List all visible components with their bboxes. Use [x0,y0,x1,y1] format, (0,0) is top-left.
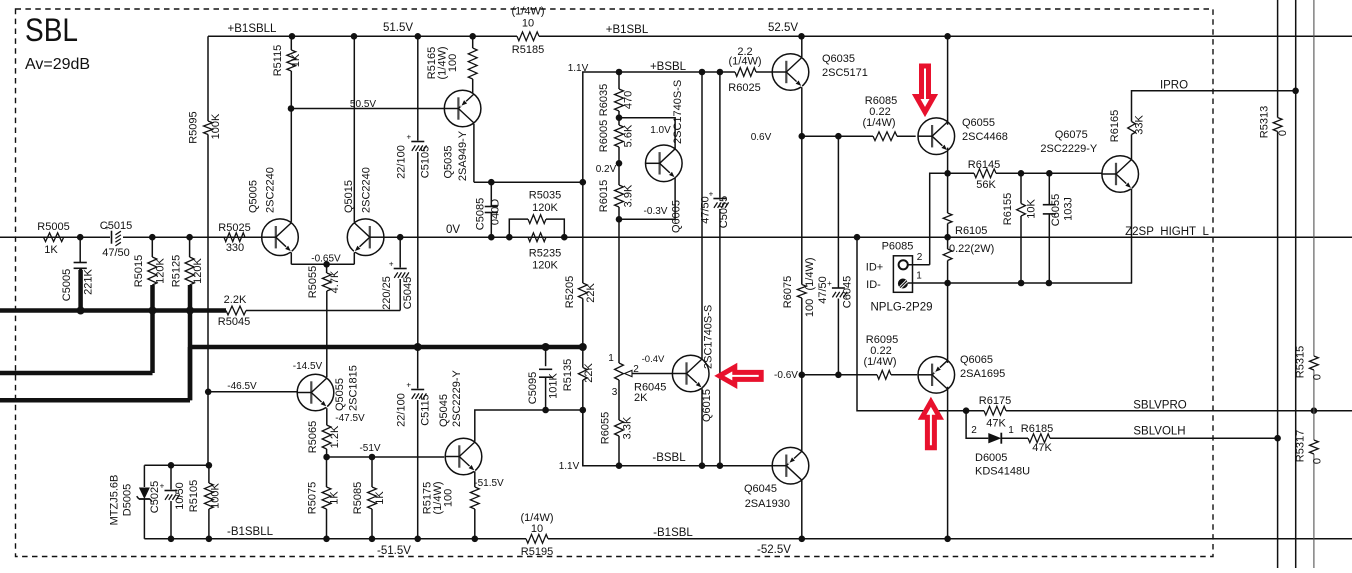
svg-text:+B1SBLL: +B1SBLL [228,23,278,35]
svg-text:33K: 33K [1134,115,1146,135]
resistor R5055 [307,266,341,298]
svg-text:R5075: R5075 [307,482,319,514]
resistor R5165 [426,36,477,93]
svg-text:C5005: C5005 [61,269,73,301]
svg-text:Q5035: Q5035 [443,145,455,178]
svg-text:2: 2 [633,364,639,375]
wire R5055 chain [326,264,328,377]
wire R5045 to C5045 [246,310,400,312]
resistor R5035 top branch [509,190,564,238]
svg-text:D5005: D5005 [122,484,134,516]
svg-text:R5125: R5125 [171,255,183,287]
thick shield line C [0,398,190,403]
svg-text:100: 100 [443,489,455,507]
resistor R5015 [133,255,167,287]
svg-text:C5095: C5095 [527,372,539,404]
node dot R6175 [963,407,970,414]
wire zener box top [144,464,209,466]
resistor R6075 [782,136,816,375]
wire -B1SBLL/-B1SBL bottom rail [144,538,1352,540]
node dot SBLVOLH end [1274,435,1281,442]
node dots R pair [506,234,568,241]
thick shield line A [0,308,226,313]
svg-text:1.1V: 1.1V [568,63,589,74]
voltage 50.5V [350,99,376,110]
svg-text:-51.5V: -51.5V [377,545,411,557]
red arrow left at Q6015 [719,367,761,385]
svg-text:Q6075: Q6075 [1055,129,1088,141]
net label +BSBL [650,61,687,73]
svg-text:D6005: D6005 [975,452,1007,464]
svg-text:1: 1 [916,271,922,282]
svg-text:10K: 10K [1026,199,1038,219]
voltage 0.2V [596,164,617,175]
svg-text:2: 2 [917,252,923,263]
transistor Q5035 PNP [443,90,481,181]
bus line 3 x=1313.9 [1313,0,1315,568]
node dot 0.2V [616,160,623,167]
svg-text:R6015: R6015 [598,180,610,212]
net label +B1SBL [606,24,649,36]
resistor R6025 [728,46,761,94]
svg-text:22/100: 22/100 [396,145,408,179]
resistor R6105 upper [943,173,987,249]
svg-text:R5115: R5115 [272,45,284,77]
voltage -0.65V [311,254,341,265]
net label Z2SP_HIGHT_L [1125,226,1209,238]
svg-text:2SA949-Y: 2SA949-Y [457,130,469,181]
svg-text:-B1SBLL: -B1SBLL [227,526,274,538]
svg-text:2SC5171: 2SC5171 [822,67,868,79]
wire SBLVOLH drop [966,411,988,439]
capacitor C5085 [475,182,502,237]
svg-text:22K: 22K [583,363,595,383]
svg-text:R5315: R5315 [1295,346,1307,378]
wire Q5055 emitter [326,408,328,425]
wire Q6045 emitter up [801,375,803,452]
svg-text:1K: 1K [329,491,341,505]
bus line 1 x=1277.6 [1277,0,1279,568]
svg-text:120K: 120K [532,202,558,214]
wire SBLVOLH line [1001,437,1277,439]
wire x=619 vertical top [618,72,620,466]
wire Q6055 emitter [947,148,949,174]
wire R5125 branch [189,237,191,400]
svg-text:(1/4W): (1/4W) [729,55,762,67]
svg-text:22K: 22K [585,283,597,303]
voltage -0.6V [774,370,798,381]
potentiometer R6045 [608,353,672,404]
voltage -14.5V [293,361,323,372]
svg-text:P6085: P6085 [882,241,914,253]
voltage -46.5V [227,381,257,392]
svg-text:R5015: R5015 [133,255,145,287]
wire C5105 vertical [417,36,419,347]
wire SBLVPRO line [966,410,1352,412]
wire P6085 pin2 [908,264,930,266]
svg-text:120K: 120K [155,257,167,283]
voltage 52.5V [768,22,798,34]
node dots pin1 line [944,280,1052,287]
svg-text:R5085: R5085 [352,482,364,514]
voltage 1.1V bottom [559,461,580,472]
svg-text:0: 0 [1312,374,1324,380]
svg-text:R5205: R5205 [564,276,576,308]
svg-text:C5115: C5115 [420,394,432,426]
voltage 0.6V [751,132,772,143]
svg-text:2SC4468: 2SC4468 [962,131,1008,143]
svg-text:-51V: -51V [359,443,380,454]
svg-text:+: + [406,133,411,142]
svg-text:0V: 0V [446,224,460,236]
svg-text:2SC2229-Y: 2SC2229-Y [451,369,463,427]
svg-text:R5313: R5313 [1259,106,1271,138]
wire Q6055 collector [947,36,949,125]
wire 0V to SBLVPRO branch [857,237,966,411]
resistor R6015 [598,180,635,212]
svg-text:R5135: R5135 [562,359,574,391]
svg-text:1: 1 [608,353,614,364]
svg-text:Z2SP_HIGHT_L: Z2SP_HIGHT_L [1125,226,1209,238]
voltage -0.3V [644,206,668,217]
node -46.5V dot [205,389,212,396]
voltage 1.1V top [568,63,589,74]
resistor R5085 branch [352,457,386,539]
resistor R6155 [1002,173,1038,283]
capacitor C5005 [61,263,95,302]
svg-text:C5105: C5105 [420,146,432,178]
svg-text:2SC1740S-S: 2SC1740S-S [703,305,715,369]
junction dots +BSBL [616,69,724,76]
wire Q6015 emitter [701,387,703,465]
svg-text:R6035: R6035 [598,84,610,116]
node dot SBLVPRO end [1311,407,1318,414]
capacitor C5025 [149,465,186,539]
transistor Q6015 [672,305,714,422]
transistor Q6035 [772,53,868,90]
capacitor C5045 [381,237,414,310]
svg-text:330: 330 [226,242,244,254]
svg-text:3.3K: 3.3K [622,416,634,439]
svg-text:0: 0 [1277,130,1289,136]
capacitor C6045 [817,136,854,375]
svg-text:1.0V: 1.0V [650,125,671,136]
wire +B1SBLL/+B1SBL top rail [208,35,1352,37]
thick line D [190,347,583,400]
svg-text:Av=29dB: Av=29dB [25,56,90,73]
svg-text:0.2V: 0.2V [596,164,617,175]
capacitor C6055 [1043,173,1075,283]
wire left vertical x=208 [207,36,209,465]
resistor R5115 [272,45,302,77]
svg-text:+BSBL: +BSBL [650,61,687,73]
svg-text:120K: 120K [192,257,204,283]
svg-text:ID+: ID+ [866,262,883,274]
svg-text:R6155: R6155 [1002,193,1014,225]
svg-text:C6055: C6055 [1050,194,1062,226]
wire -BSBL line [583,410,773,466]
resistor R6145 [968,159,1000,191]
svg-text:51.5V: 51.5V [383,22,413,34]
svg-text:C5015: C5015 [100,220,132,232]
svg-text:-B1SBL: -B1SBL [653,527,693,539]
resistor R5135 [562,359,595,391]
transistor Q6005 [646,80,685,233]
node dot R6105 mid [944,234,951,241]
svg-text:2SA1930: 2SA1930 [745,498,790,510]
svg-text:1.1V: 1.1V [559,461,580,472]
junction dots on bottom rail [168,536,951,543]
voltage -47.5V [335,413,365,424]
net label SBLVPRO [1133,400,1187,412]
svg-text:103J: 103J [1063,197,1075,221]
transistor Q5005 [248,167,299,255]
resistor R6005 [598,120,635,152]
title SBL [25,12,78,48]
svg-text:R6025: R6025 [728,82,760,94]
svg-text:1K: 1K [44,244,58,256]
wire 50.5V line [291,108,444,110]
svg-text:(1/4W): (1/4W) [804,258,816,291]
voltage -51.5V Q5045 [474,478,504,489]
wire emitter node line [930,173,1102,264]
node Q5015 base dot [397,234,404,241]
wire 0.6V line [802,135,916,137]
wire Q6035 emitter [801,87,803,136]
node dots 410 line [542,407,586,414]
voltage -0.4V [642,354,665,365]
svg-text:C5055: C5055 [718,196,730,228]
net label SBLVOLH [1133,426,1185,438]
resistor R6035 [598,84,635,116]
svg-text:NPLG-2P29: NPLG-2P29 [870,302,932,314]
node dots -51V [323,454,375,461]
svg-text:47K: 47K [1032,442,1052,454]
svg-text:C5045: C5045 [402,277,414,309]
resistor R5125 [171,255,205,287]
resistor R5045 2.2K [218,294,250,328]
svg-text:R5045: R5045 [218,316,250,328]
resistor R5313 [1259,106,1290,138]
wire Q6045 collector down [801,480,803,539]
resistor R5185 [512,6,545,57]
resistor R5075 branch [307,457,341,539]
svg-text:56K: 56K [976,179,996,191]
svg-text:040D: 040D [490,199,502,225]
svg-text:R6145: R6145 [968,159,1000,171]
connector P6085 body [866,241,923,293]
capacitor C5055 [700,72,731,466]
wire Q5045 emitter [474,471,476,487]
svg-text:100K: 100K [210,113,222,139]
net label -B1SBLL [227,526,274,538]
svg-text:R5105: R5105 [188,480,200,512]
resistor R5315 [1295,346,1324,380]
svg-text:KDS4148U: KDS4148U [975,466,1030,478]
wire R5065 to -51V [326,449,328,457]
svg-text:C6045: C6045 [842,276,854,308]
svg-text:101K: 101K [548,372,560,398]
junction dots line A [77,307,194,315]
wire Q6065 emitter up [947,283,949,363]
resistor R6105 lower [943,243,994,283]
svg-text:R6075: R6075 [782,276,794,308]
transistor Q5055 [297,365,359,411]
svg-text:2: 2 [971,425,977,436]
wire Q6065 collector down [947,387,949,539]
svg-text:R5035: R5035 [529,190,561,202]
node dot C5005 [77,234,84,241]
node dot IPRO [1292,88,1299,95]
svg-text:Q6035: Q6035 [822,53,855,65]
node 50.5V dot [288,105,295,112]
svg-text:2.2K: 2.2K [224,294,247,306]
svg-text:R6185: R6185 [1021,423,1053,435]
svg-text:C5085: C5085 [475,198,487,230]
svg-text:-46.5V: -46.5V [227,381,257,392]
wire R5015 branch [151,237,153,373]
resistor R5025 [218,222,250,254]
wire Q5045 collector [475,410,583,442]
thick shield line B [0,371,153,376]
wire Q6015 collector [701,72,703,360]
resistor R6175 [979,395,1011,430]
svg-text:R6105: R6105 [955,225,987,237]
voltage 1.0V [650,125,671,136]
resistor R6055 [600,412,634,444]
resistor R5105 [188,480,222,512]
svg-text:2SC2229-Y: 2SC2229-Y [1040,143,1098,155]
svg-text:R5195: R5195 [521,546,553,558]
label 0V [446,224,460,236]
svg-text:C5025: C5025 [149,481,161,513]
node dot 1.0V [616,114,623,121]
resistor R6185 [1021,423,1053,454]
red arrow up at Q6065 [922,402,940,448]
svg-text:R6005: R6005 [598,120,610,152]
resistor R5317 [1295,430,1324,464]
junction dots -BSBL [616,462,724,469]
node dots R5015 R5125 [149,234,193,241]
wire Q6005 collector [619,118,675,150]
svg-text:R6175: R6175 [979,395,1011,407]
svg-text:Q6005: Q6005 [671,200,683,233]
gain label Av=29dB [25,56,90,73]
svg-text:52.5V: 52.5V [768,22,798,34]
wire x=582.8 vertical [582,72,584,466]
svg-text:-51.5V: -51.5V [474,478,504,489]
svg-text:3.9K: 3.9K [623,184,635,207]
resistor R6165 [1109,110,1146,142]
svg-text:(1/4W): (1/4W) [864,356,897,368]
svg-text:-BSBL: -BSBL [652,452,686,464]
svg-text:R5065: R5065 [307,421,319,453]
node dot 857 [854,234,861,241]
resistor R6095 [864,334,899,379]
svg-text:0.22(2W): 0.22(2W) [949,243,994,255]
wire Q5015 collector [353,36,355,222]
svg-text:R5025: R5025 [218,222,250,234]
diode D6005 [971,425,1030,478]
voltage -52.5V [757,544,791,556]
wire C5005 branch [79,237,81,310]
svg-text:IPRO: IPRO [1160,80,1188,92]
resistor R5205 [564,276,597,308]
svg-text:2SC1740S-S: 2SC1740S-S [672,80,684,144]
svg-text:Q5015: Q5015 [343,180,355,213]
svg-text:2SC1815: 2SC1815 [348,365,360,411]
svg-text:R5317: R5317 [1295,430,1307,462]
node dot -0.3V [616,216,623,223]
svg-text:R5185: R5185 [512,44,544,56]
svg-text:R5095: R5095 [187,111,199,143]
svg-text:2SC2240: 2SC2240 [361,167,373,213]
wire Q5035 collector down [474,124,583,182]
resistor R5005 [37,221,69,256]
svg-text:(1/4W): (1/4W) [863,117,896,129]
svg-text:-52.5V: -52.5V [757,544,791,556]
resistor R5195 [521,512,554,558]
svg-text:MTZJ5.6B: MTZJ5.6B [109,475,121,526]
svg-text:-0.6V: -0.6V [774,370,798,381]
svg-text:-0.3V: -0.3V [644,206,668,217]
svg-text:1K: 1K [374,491,386,505]
transistor Q6065 PNP [918,354,1005,393]
junction dots on top rail [289,33,951,40]
svg-text:10: 10 [531,523,543,535]
wire Q6035 collector [801,36,803,57]
svg-text:120K: 120K [532,260,558,272]
svg-text:Q6065: Q6065 [960,354,993,366]
transistor Q5015 [343,167,384,255]
wire Q5005 emitter [291,253,354,265]
bus line 2 x=1295.7 [1295,0,1297,568]
svg-text:SBLVOLH: SBLVOLH [1133,426,1185,438]
label NPLG-2P29 [870,302,932,314]
wire Q6005 emitter [619,177,675,219]
svg-text:Q5045: Q5045 [438,394,450,427]
voltage -51V [359,443,380,454]
svg-text:2SC2240: 2SC2240 [265,167,277,213]
svg-text:10: 10 [522,18,534,30]
junction dots 0.6V [799,133,842,140]
svg-text:+: + [389,260,394,269]
voltage 51.5V [383,22,413,34]
svg-text:SBL: SBL [25,12,78,48]
transistor Q6075 [1040,129,1138,192]
svg-text:47K: 47K [986,418,1006,430]
svg-text:47/50: 47/50 [817,276,829,304]
wire Q5055 base -46.5V [208,391,297,393]
svg-text:1: 1 [1008,425,1014,436]
net label +B1SBLL [228,23,278,35]
svg-text:-47.5V: -47.5V [335,413,365,424]
svg-text:R5235: R5235 [529,248,561,260]
svg-text:-14.5V: -14.5V [293,361,323,372]
transistor Q5045 [438,369,482,474]
svg-text:0.6V: 0.6V [751,132,772,143]
svg-text:2K: 2K [634,392,648,404]
svg-text:R5055: R5055 [307,266,319,298]
svg-text:SBLVPRO: SBLVPRO [1133,400,1187,412]
svg-text:1K: 1K [290,53,302,67]
capacitor C5115 [396,347,432,539]
net label -BSBL [652,452,686,464]
svg-text:100: 100 [804,299,816,317]
svg-text:Q6045: Q6045 [744,483,777,495]
resistor R5065 [307,421,341,453]
svg-text:47/50: 47/50 [700,196,712,224]
